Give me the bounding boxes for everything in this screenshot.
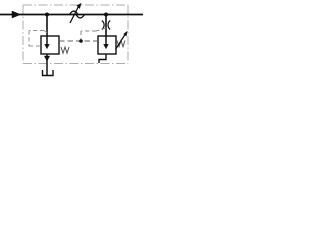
- node: junction main line to left valve: [45, 13, 49, 17]
- valve V1 flow path arrow (down): [46, 36, 48, 46]
- fixed orifice (restriction) on drop line: [102, 21, 110, 30]
- tank symbol: [43, 70, 54, 76]
- node: pilot junction: [79, 39, 83, 43]
- wire: V1 outlet to tank: [46, 54, 48, 75]
- pilot line: V1 pressure pickup (dashed): [29, 31, 47, 47]
- valve V2: pilot relief valve body: [98, 36, 116, 54]
- valve V1 spring: [61, 47, 69, 53]
- wire: supply drop to left valve: [46, 15, 48, 37]
- pilot line: tap between orifice and V2 (dashed): [81, 28, 106, 41]
- wire: V2 drain (down, jog left): [99, 54, 106, 63]
- enclosure boundary (dash-dot subsystem frame): [23, 5, 128, 64]
- valve V2 adjustable spring: [117, 41, 125, 47]
- valve V1: main relief valve body: [41, 36, 59, 54]
- valve V2 flow path arrow (down): [105, 36, 107, 46]
- node: junction main line to right valve: [104, 13, 108, 17]
- pilot line: spring chamber link between valves (dashed): [59, 40, 98, 42]
- wire: drop from main line to orifice: [105, 15, 107, 37]
- outlet flow arrow (down): [44, 56, 49, 61]
- throttle valve (adjustable restrictor) on main line: [70, 11, 85, 18]
- inlet flow arrow: [12, 11, 21, 18]
- wire: main pressure line P (horizontal): [0, 14, 143, 16]
